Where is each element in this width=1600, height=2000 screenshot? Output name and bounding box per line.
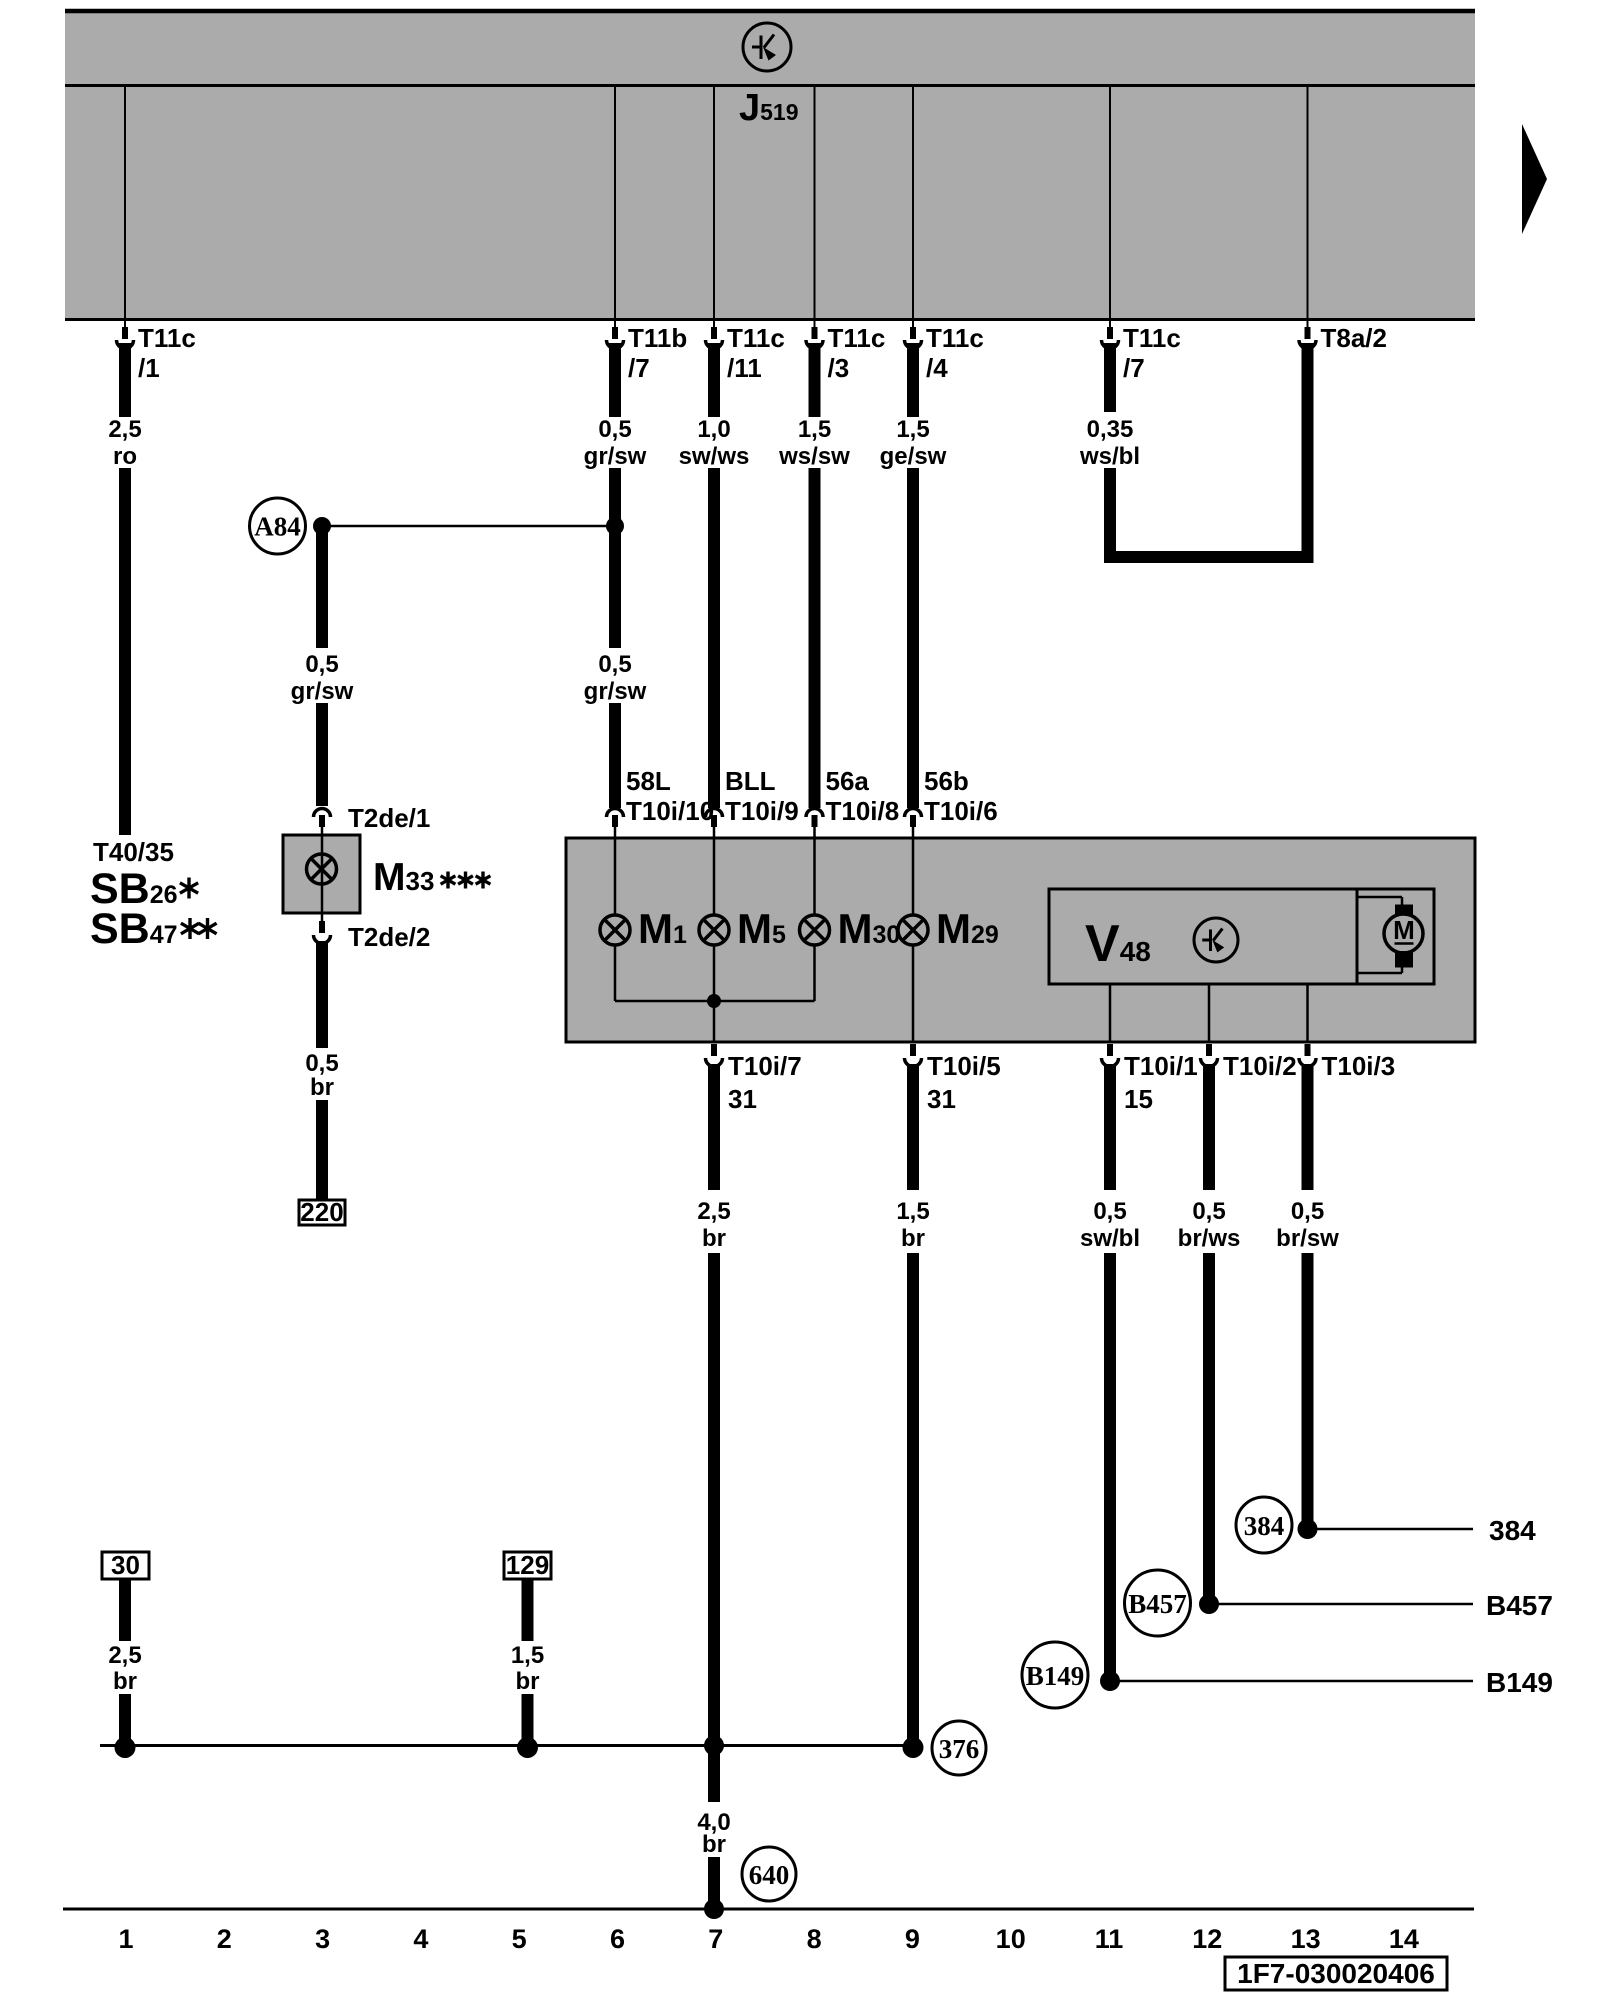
wire 0,35 ws/bl segment 2 (1104, 468, 1116, 562)
control module J519 box (65, 9, 1475, 320)
svg-text:14: 14 (1389, 1924, 1419, 1954)
svg-text:384: 384 (1489, 1515, 1536, 1546)
svg-text:T11c: T11c (926, 323, 984, 353)
svg-text:br: br (702, 1225, 726, 1252)
wire inside J519 col 8 (814, 87, 816, 318)
svg-text:56a: 56a (826, 766, 870, 796)
wire col7 segment 2 (708, 468, 720, 808)
label T11c/4 (926, 323, 984, 383)
svg-text:br/sw: br/sw (1276, 1225, 1339, 1252)
svg-text:T11c: T11c (1123, 323, 1181, 353)
svg-text:/11: /11 (727, 353, 762, 383)
wire col7 to ground bus (708, 1253, 720, 1746)
connector pin T11c/11 at J519 (706, 321, 723, 349)
wire 0,5 sw/bl lower segment 1 (1104, 1064, 1116, 1190)
junction dot 384 (1298, 1519, 1318, 1539)
svg-text:0,5: 0,5 (1291, 1198, 1324, 1225)
connector T2de/2 (314, 913, 331, 944)
wire to lamp M5 (713, 838, 716, 916)
connector T10i/5 (905, 1044, 922, 1067)
wire col9 segment 2 (907, 468, 919, 808)
label M33 *** (373, 856, 490, 899)
junction dot bus col7 (704, 1736, 724, 1756)
svg-text:br: br (702, 1831, 726, 1858)
label 4,0 br (697, 1809, 730, 1858)
wire inside M33 (321, 835, 324, 913)
wire to label B457 (1209, 1603, 1473, 1606)
label 2,5 ro (108, 416, 141, 470)
label 0,5 gr/sw (col3) (291, 651, 354, 705)
label 1,5 ws/sw (778, 416, 850, 470)
svg-text:0,5: 0,5 (305, 651, 338, 678)
svg-text:T8a/2: T8a/2 (1321, 323, 1388, 353)
wire 1,5 br lower segment 1 (907, 1064, 919, 1190)
wire V48 out 2 (1208, 984, 1211, 1042)
wire col6 segment 3 (609, 703, 621, 808)
wire 1,0 sw/ws segment 1 (708, 343, 720, 417)
bottom rail (63, 1908, 1474, 1911)
svg-text:T11b: T11b (628, 323, 687, 353)
svg-text:13: 13 (1291, 1924, 1321, 1954)
connector T2de/1 (314, 809, 331, 836)
label 2,5 br (30) (108, 1642, 141, 1695)
svg-text:sw/bl: sw/bl (1080, 1225, 1140, 1252)
connector T10i/3 (1299, 1044, 1316, 1067)
connector pin T11c/7 at J519 (1102, 321, 1119, 349)
svg-text:T40/35: T40/35 (93, 837, 174, 867)
motor M symbol (1357, 897, 1423, 973)
label SB47 ** (90, 905, 217, 953)
circle 376 (932, 1721, 986, 1775)
svg-text:gr/sw: gr/sw (584, 443, 647, 470)
label 0,5 br/ws lower (1178, 1198, 1241, 1252)
svg-text:10: 10 (996, 1924, 1026, 1954)
svg-text:0,5: 0,5 (598, 651, 631, 678)
connector T10i/7 (706, 1044, 723, 1067)
label T10i/7 31 (728, 1051, 802, 1114)
part number box (1225, 1957, 1447, 1990)
wire inside J519 col 11 (1109, 87, 1111, 318)
svg-text:2,5: 2,5 (108, 416, 141, 443)
svg-text:T2de/1: T2de/1 (348, 803, 430, 833)
svg-text:T10i/1: T10i/1 (1124, 1051, 1198, 1081)
circle B149 (1022, 1642, 1088, 1708)
svg-text:T11c: T11c (138, 323, 196, 353)
ground point dot 640 (704, 1899, 724, 1919)
wire inside J519 col 1 (124, 87, 126, 318)
svg-text:1,0: 1,0 (697, 416, 730, 443)
svg-text:A84: A84 (254, 512, 301, 542)
svg-text:B457: B457 (1128, 1589, 1187, 1619)
wire M30 below lamp (813, 944, 816, 1001)
label 0,35 ws/bl (1079, 416, 1140, 470)
wire 4,0 br segment 1 (708, 1745, 720, 1802)
svg-text:384: 384 (1244, 1511, 1285, 1541)
svg-text:58L: 58L (626, 766, 671, 796)
label 0,5 gr/sw (584, 416, 647, 470)
node A84 circle (250, 498, 306, 554)
wire V48 out 3 (1306, 984, 1309, 1042)
connector pin T11c/4 at J519 (905, 321, 922, 349)
label T11c/1 (138, 323, 196, 383)
svg-text:T11c: T11c (727, 323, 785, 353)
wire 0,5 gr/sw (A84 down) segment 1 (316, 526, 328, 648)
svg-text:M: M (1393, 915, 1415, 945)
svg-text:ro: ro (113, 443, 137, 470)
junction dot M5 bus (707, 994, 721, 1008)
svg-text:1,5: 1,5 (896, 1198, 929, 1225)
label 0,5 br (col3) (305, 1050, 338, 1101)
circle 384 (1236, 1497, 1292, 1553)
svg-text:1,5: 1,5 (798, 416, 831, 443)
lamp M5 (699, 915, 729, 945)
svg-text:3: 3 (315, 1924, 330, 1954)
ground bus wire (100, 1744, 911, 1747)
svg-text:0,5: 0,5 (1192, 1198, 1225, 1225)
junction dot B457 (1199, 1594, 1219, 1614)
wire 1,5 br (129) segment 2 (522, 1694, 534, 1746)
symbol K in V48 (1194, 918, 1238, 962)
label 56a T10i/8 (826, 766, 900, 826)
label T10i/3 (1322, 1051, 1396, 1081)
junction dot col6/A84 (606, 517, 624, 535)
label BLL T10i/9 (725, 766, 799, 826)
circle B457 (1125, 1570, 1191, 1636)
svg-text:220: 220 (300, 1197, 343, 1227)
svg-text:T10i/5: T10i/5 (927, 1051, 1001, 1081)
svg-text:B457: B457 (1486, 1590, 1553, 1621)
svg-text:0,5: 0,5 (598, 416, 631, 443)
svg-text:1: 1 (118, 1924, 133, 1954)
connector T10i/8 into lamp unit (806, 809, 823, 839)
svg-text:T10i/6: T10i/6 (924, 796, 998, 826)
label 1,5 br lower (896, 1198, 929, 1252)
bus M1-M30 (615, 1000, 815, 1003)
wire 0,5 br/sw lower segment 1 (1302, 1064, 1314, 1190)
svg-text:BLL: BLL (725, 766, 776, 796)
svg-text:/4: /4 (926, 353, 948, 383)
wire 0,35 ws/bl segment 1 (1104, 343, 1116, 412)
terminal box 30 (102, 1550, 149, 1580)
svg-text:T10i/10: T10i/10 (626, 796, 714, 826)
lamp M33 box (283, 835, 360, 913)
svg-text:br/ws: br/ws (1178, 1225, 1241, 1252)
svg-text:T10i/8: T10i/8 (826, 796, 900, 826)
wire inside J519 col 13 (1307, 87, 1309, 318)
svg-text:T2de/2: T2de/2 (348, 922, 430, 952)
label 58L T10i/10 (626, 766, 714, 826)
connector pin T11c/3 at J519 (806, 321, 823, 349)
svg-text:br: br (516, 1668, 540, 1695)
svg-text:56b: 56b (924, 766, 969, 796)
wire 2,5 br lower segment 1 (708, 1064, 720, 1190)
label T11c/3 (828, 323, 886, 383)
wire U-link bottom (1104, 551, 1314, 563)
svg-text:1,5: 1,5 (511, 1642, 544, 1669)
label T8a/2 (1321, 323, 1388, 353)
terminal box 129 (504, 1550, 551, 1580)
lamp M1 (600, 915, 630, 945)
svg-text:sw/ws: sw/ws (679, 443, 750, 470)
wire inside J519 col 9 (912, 87, 914, 318)
wire to lamp M30 (813, 838, 816, 916)
junction dot bus col9 (903, 1737, 924, 1758)
label 0,5 br/sw lower (1276, 1198, 1339, 1252)
connector T10i/10 into lamp unit (607, 809, 624, 839)
svg-text:T10i/2: T10i/2 (1223, 1051, 1297, 1081)
wire V48 out 1 (1109, 984, 1112, 1042)
svg-text:12: 12 (1192, 1924, 1222, 1954)
svg-text:ws/bl: ws/bl (1079, 443, 1140, 470)
label T11c/11 (727, 323, 785, 383)
connector T10i/1 (1102, 1044, 1119, 1067)
wire col11 to B149 (1104, 1253, 1116, 1681)
svg-text:/3: /3 (828, 353, 850, 383)
svg-text:1,5: 1,5 (896, 416, 929, 443)
svg-text:2,5: 2,5 (108, 1642, 141, 1669)
svg-text:/1: /1 (138, 353, 160, 383)
connector T10i/9 into lamp unit (706, 809, 723, 839)
wire 0,5 br segment 2 (316, 1100, 328, 1200)
lamp M29 (898, 915, 928, 945)
wire to lamp M1 (614, 838, 617, 916)
connector T10i/2 (1201, 1044, 1218, 1067)
wire 1,5 br (129) segment 1 (522, 1579, 534, 1641)
svg-text:11: 11 (1095, 1924, 1124, 1954)
circle 640 (742, 1847, 796, 1901)
svg-text:/7: /7 (628, 353, 650, 383)
wire col6 segment 2 (609, 468, 621, 648)
svg-text:T10i/3: T10i/3 (1322, 1051, 1396, 1081)
svg-text:30: 30 (111, 1550, 140, 1580)
svg-text:6: 6 (610, 1924, 625, 1954)
svg-text:ws/sw: ws/sw (778, 443, 850, 470)
svg-text:7: 7 (708, 1924, 723, 1954)
svg-text:31: 31 (728, 1084, 757, 1114)
svg-text:15: 15 (1124, 1084, 1153, 1114)
svg-text:376: 376 (939, 1734, 980, 1764)
svg-text:br: br (310, 1074, 334, 1101)
svg-text:4: 4 (413, 1924, 428, 1954)
svg-text:0,5: 0,5 (305, 1050, 338, 1077)
wire 0,5 gr/sw segment 1 (609, 343, 621, 417)
connector pin T8a/2 at J519 (1299, 321, 1316, 349)
lamp symbol M33 (307, 854, 337, 884)
connector pin T11c/1 at J519 (117, 321, 134, 349)
label 1,5 br (129) (511, 1642, 544, 1695)
label T10i/5 31 (927, 1051, 1001, 1114)
wire col8 segment 2 (809, 468, 821, 808)
wire 0,5 br/ws lower segment 1 (1203, 1064, 1215, 1190)
wire 2,5 ro segment 2 (119, 468, 131, 835)
svg-text:2: 2 (217, 1924, 232, 1954)
wire 2,5 br (30) segment 1 (119, 1579, 131, 1641)
svg-text:640: 640 (749, 1860, 790, 1890)
label T10i/1 15 (1124, 1051, 1198, 1114)
svg-text:T10i/7: T10i/7 (728, 1051, 802, 1081)
label T10i/2 (1223, 1051, 1297, 1081)
wire to label 384 (1308, 1528, 1474, 1531)
svg-text:T10i/9: T10i/9 (725, 796, 799, 826)
wire A84 to col6 horizontal (322, 525, 615, 528)
label 0,5 sw/bl lower (1080, 1198, 1140, 1252)
svg-text:0,5: 0,5 (1093, 1198, 1126, 1225)
svg-text:ge/sw: ge/sw (880, 443, 947, 470)
svg-text:31: 31 (927, 1084, 956, 1114)
label 56b T10i/6 (924, 766, 998, 826)
svg-text:9: 9 (905, 1924, 920, 1954)
svg-text:br: br (901, 1225, 925, 1252)
wire col12 to B457 (1203, 1253, 1215, 1604)
label T11c/7 (1123, 323, 1181, 383)
svg-text:8: 8 (807, 1924, 822, 1954)
svg-text:129: 129 (506, 1550, 549, 1580)
label 1,0 sw/ws (679, 416, 750, 470)
wire 1,5 ws/sw segment 1 (809, 343, 821, 417)
wire M1 below lamp (614, 944, 617, 1001)
wire inside J519 col 6 (614, 87, 616, 318)
wire M5 to T10i/7 (713, 944, 716, 1042)
wire col9 to ground point 376 (907, 1253, 919, 1754)
svg-text:2,5: 2,5 (697, 1198, 730, 1225)
svg-text:gr/sw: gr/sw (584, 678, 647, 705)
junction dot bus col1 (115, 1737, 136, 1758)
wire 2,5 br (30) segment 2 (119, 1694, 131, 1746)
wire 0,5 gr/sw (A84 down) segment 2 (316, 703, 328, 806)
connector pin T11b/7 at J519 (607, 321, 624, 349)
wire to lamp M29 (912, 838, 915, 916)
wire to label B149 (1110, 1680, 1473, 1683)
svg-text:B149: B149 (1026, 1661, 1085, 1691)
wire 1,5 ge/sw segment 1 (907, 343, 919, 417)
label T11b/7 (628, 323, 687, 383)
svg-text:/7: /7 (1123, 353, 1145, 383)
label 0,5 gr/sw (col6 mid) (584, 651, 647, 705)
wire 0,5 br segment 1 (316, 941, 328, 1048)
junction dot bus col5 (517, 1737, 538, 1758)
wire M29 to T10i/5 (912, 944, 915, 1042)
svg-text:gr/sw: gr/sw (291, 678, 354, 705)
wire inside J519 col 7 (713, 87, 715, 318)
svg-text:1F7-030020406: 1F7-030020406 (1237, 1958, 1435, 1989)
svg-text:5: 5 (512, 1924, 527, 1954)
label 2,5 br lower (697, 1198, 730, 1252)
svg-text:0,35: 0,35 (1087, 416, 1134, 443)
junction dot B149 (1100, 1671, 1120, 1691)
page continuation arrow (1522, 124, 1547, 234)
motor V48 box (1049, 889, 1434, 984)
wire col13 to 384 (1302, 1253, 1314, 1529)
wire 4,0 br segment 2 (708, 1857, 720, 1909)
terminal box 220 (299, 1197, 345, 1227)
symbol K (bus connection) in J519 (743, 23, 791, 71)
svg-text:B149: B149 (1486, 1667, 1553, 1698)
wire 2,5 ro segment 1 (119, 343, 131, 417)
wire T8a/2 leg (1302, 343, 1314, 562)
svg-text:br: br (113, 1668, 137, 1695)
junction dot A84 (313, 517, 331, 535)
lamp M30 (800, 915, 830, 945)
lamp unit box (M1 M5 M30 M29 V48) (566, 838, 1475, 1042)
label SB26 * (90, 865, 198, 913)
track numbers (118, 1924, 1418, 1954)
label J519 (739, 87, 799, 129)
connector T10i/6 into lamp unit (905, 809, 922, 839)
svg-text:T11c: T11c (828, 323, 886, 353)
label 1,5 ge/sw (880, 416, 947, 470)
